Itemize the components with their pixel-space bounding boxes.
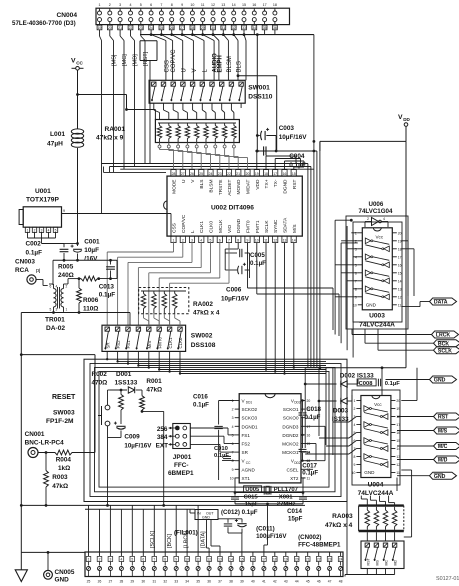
- svg-text:35: 35: [196, 580, 200, 584]
- wire BLS loop: [237, 74, 277, 151]
- svg-text:M/D: M/D: [438, 458, 448, 464]
- svg-text:5: 5: [140, 3, 142, 7]
- inductor L001: [47, 129, 84, 244]
- connector CN002 label: [298, 534, 341, 549]
- wire right bus: [308, 35, 333, 455]
- svg-text:3: 3: [56, 308, 58, 312]
- svg-text:9: 9: [63, 209, 65, 213]
- svg-text:C016: C016: [193, 394, 208, 401]
- svg-text:C003: C003: [279, 125, 295, 132]
- switch SW004: [345, 541, 404, 577]
- svg-text:10: 10: [255, 238, 259, 242]
- node M/S tag: [397, 430, 434, 432]
- capacitor C014 15pF: [235, 478, 307, 552]
- svg-text:FP1F-2M: FP1F-2M: [46, 418, 74, 425]
- svg-text:5: 5: [355, 263, 357, 267]
- svg-text:C010: C010: [214, 446, 228, 452]
- wire SW001 to RA001: [154, 103, 241, 119]
- svg-text:21: 21: [236, 172, 240, 176]
- svg-text:22: 22: [317, 558, 321, 562]
- svg-text:384: 384: [157, 434, 168, 441]
- svg-text:25: 25: [160, 26, 164, 30]
- svg-text:1: 1: [355, 231, 357, 235]
- svg-text:[MD]: [MD]: [133, 54, 139, 66]
- resistor R004 1k: [55, 364, 95, 472]
- svg-text:240Ω: 240Ω: [58, 272, 74, 279]
- svg-text:C014: C014: [287, 508, 302, 515]
- svg-text:CN004: CN004: [56, 12, 77, 19]
- svg-text:11: 11: [307, 476, 311, 480]
- svg-text:47µH: 47µH: [47, 141, 63, 148]
- wire DGND3 loop: [306, 426, 326, 460]
- svg-text:CSS: CSS: [165, 60, 171, 72]
- svg-text:R005: R005: [58, 264, 74, 271]
- svg-text:15pF: 15pF: [288, 516, 303, 523]
- svg-text:6: 6: [150, 3, 152, 7]
- svg-text:SW001: SW001: [248, 85, 270, 92]
- svg-text:12: 12: [273, 238, 277, 242]
- svg-text:Vcc: Vcc: [375, 234, 383, 239]
- svg-text:32: 32: [163, 580, 167, 584]
- svg-text:[SCLK]: [SCLK]: [150, 530, 156, 548]
- svg-text:18: 18: [398, 247, 402, 251]
- wire U002 VDD pins: [255, 150, 304, 170]
- svg-text:27MHz: 27MHz: [277, 502, 296, 508]
- diode D003 IS133: [318, 395, 352, 423]
- svg-text:M/S: M/S: [147, 341, 152, 349]
- svg-text:CLK1: CLK1: [168, 337, 173, 349]
- svg-text:DD2: DD2: [294, 461, 301, 465]
- svg-text:RST: RST: [438, 415, 449, 421]
- svg-text:47: 47: [328, 580, 332, 584]
- wire SCLK col: [265, 243, 267, 371]
- switch SW002 DSS108: [102, 325, 216, 351]
- svg-text:VIO: VIO: [227, 224, 233, 233]
- svg-text:C015: C015: [244, 495, 259, 501]
- svg-text:3: 3: [41, 229, 43, 233]
- svg-text:8: 8: [232, 459, 234, 463]
- svg-text:COP/VC: COP/VC: [171, 49, 177, 73]
- capacitor C006 10uF/16V: [221, 287, 250, 303]
- svg-text:2: 2: [109, 3, 111, 7]
- svg-text:SR: SR: [242, 450, 249, 455]
- svg-text:RA001: RA001: [104, 126, 125, 133]
- svg-text:14: 14: [229, 558, 233, 562]
- diode D001 1SS133: [110, 371, 142, 393]
- svg-text:6: 6: [50, 285, 52, 289]
- resistor R003 47k: [44, 453, 68, 506]
- IC U005 PLL1707: [230, 394, 311, 494]
- svg-text:V: V: [192, 68, 198, 72]
- svg-text:ACDET: ACDET: [227, 179, 233, 195]
- wire bottom rails: [20, 504, 305, 554]
- svg-text:RST: RST: [366, 558, 370, 566]
- svg-text:5: 5: [131, 558, 133, 562]
- svg-text:2: 2: [367, 217, 369, 221]
- wire bottom bundle: [89, 505, 242, 552]
- svg-text:7: 7: [228, 238, 230, 242]
- svg-text:22: 22: [129, 26, 133, 30]
- svg-text:5: 5: [55, 229, 57, 233]
- resistor R005 240: [58, 264, 117, 282]
- svg-text:15: 15: [292, 172, 296, 176]
- capacitor C002 0.1uF: [26, 241, 69, 261]
- svg-text:MD: MD: [394, 560, 398, 566]
- svg-text:10µF/16V: 10µF/16V: [124, 443, 152, 450]
- svg-text:21: 21: [306, 558, 310, 562]
- power VDD: [320, 114, 411, 368]
- svg-text:15: 15: [398, 271, 402, 275]
- svg-text:U: U: [181, 68, 187, 72]
- svg-text:GND: GND: [55, 577, 70, 584]
- wire U003 frame: [346, 216, 408, 329]
- svg-text:9: 9: [181, 3, 183, 7]
- power VCC: [71, 58, 155, 130]
- svg-text:6BMEP1: 6BMEP1: [168, 470, 194, 477]
- IC U001 TOTX179P: [19, 188, 171, 246]
- svg-text:XT1: XT1: [242, 476, 251, 481]
- svg-text:pj: pj: [36, 268, 40, 274]
- svg-text:4: 4: [355, 255, 357, 259]
- wire U004 to RA003: [361, 478, 397, 506]
- svg-text:LRCK: LRCK: [436, 333, 451, 339]
- svg-text:9: 9: [175, 558, 177, 562]
- svg-text:CC: CC: [246, 461, 251, 465]
- svg-text:24: 24: [209, 172, 213, 176]
- svg-text:4: 4: [200, 238, 202, 242]
- filter FIL001: [174, 509, 218, 552]
- wire RA002 to SW002: [144, 318, 181, 325]
- svg-text:40: 40: [251, 580, 255, 584]
- svg-text:COP/VC: COP/VC: [181, 214, 187, 233]
- svg-text:TRSTE: TRSTE: [218, 180, 224, 196]
- svg-text:RST: RST: [292, 179, 298, 189]
- svg-text:SR: SR: [105, 342, 110, 348]
- svg-text:TR001: TR001: [45, 317, 65, 324]
- svg-text:C017: C017: [302, 463, 317, 470]
- svg-text:17: 17: [398, 255, 402, 259]
- svg-text:5: 5: [210, 238, 212, 242]
- svg-text:SCLK: SCLK: [438, 348, 452, 354]
- svg-text:RA003: RA003: [332, 513, 353, 520]
- svg-text:33: 33: [174, 580, 178, 584]
- svg-text:47kΩ x 9: 47kΩ x 9: [96, 135, 124, 142]
- svg-text:BLS: BLS: [237, 61, 243, 72]
- svg-text:MC: MC: [385, 560, 389, 566]
- svg-text:20: 20: [398, 231, 402, 235]
- svg-text:19: 19: [284, 558, 288, 562]
- wire route box: [102, 41, 314, 214]
- svg-text:1: 1: [354, 399, 356, 403]
- svg-text:13: 13: [218, 558, 222, 562]
- svg-text:28: 28: [172, 172, 176, 176]
- svg-text:1: 1: [173, 238, 175, 242]
- wire U005 right: [306, 444, 317, 470]
- capacitor C008 0.1uF: [357, 379, 400, 387]
- capacitor C005 0.1uF: [225, 243, 266, 278]
- svg-text:48: 48: [339, 580, 343, 584]
- svg-text:0.1µF: 0.1µF: [302, 470, 318, 477]
- svg-text:11: 11: [196, 558, 200, 562]
- svg-text:R001: R001: [146, 378, 162, 385]
- svg-text:8: 8: [237, 238, 239, 242]
- svg-text:14: 14: [232, 3, 236, 7]
- svg-text:FFC-: FFC-: [174, 462, 189, 469]
- svg-text:C008: C008: [359, 381, 374, 387]
- svg-text:SCKO1: SCKO1: [283, 407, 299, 412]
- node RST tag: [397, 416, 434, 418]
- svg-text:MS: MS: [375, 560, 379, 566]
- svg-text:9: 9: [247, 238, 249, 242]
- wire M/S col: [293, 243, 295, 369]
- svg-text:9: 9: [355, 295, 357, 299]
- svg-text:13: 13: [398, 287, 402, 291]
- svg-text:DD: DD: [403, 117, 410, 122]
- svg-text:U002 DIT4096: U002 DIT4096: [211, 205, 254, 212]
- svg-text:M/C: M/C: [438, 444, 448, 450]
- svg-text:DGND: DGND: [236, 218, 242, 233]
- svg-text:16: 16: [252, 3, 256, 7]
- svg-text:7: 7: [355, 279, 357, 283]
- svg-text:17: 17: [307, 425, 311, 429]
- svg-text:C005: C005: [250, 252, 265, 259]
- svg-text:R003: R003: [52, 474, 68, 481]
- svg-text:MODE: MODE: [172, 180, 178, 194]
- svg-text:4: 4: [130, 3, 132, 7]
- wire lower frame: [84, 359, 347, 501]
- node GND tag1: [386, 379, 430, 381]
- svg-text:3: 3: [109, 558, 111, 562]
- svg-text:M/DAT: M/DAT: [246, 179, 252, 194]
- svg-text:[DATA]: [DATA]: [200, 531, 206, 548]
- svg-text:2: 2: [99, 558, 101, 562]
- svg-text:19: 19: [255, 172, 259, 176]
- svg-text:31: 31: [152, 580, 156, 584]
- svg-text:47kΩ: 47kΩ: [52, 483, 68, 490]
- svg-text:FS1: FS1: [242, 433, 251, 438]
- svg-text:/16V: /16V: [84, 256, 98, 263]
- svg-text:[MC]: [MC]: [122, 54, 128, 66]
- svg-text:(CN002): (CN002): [298, 534, 321, 541]
- svg-text:10: 10: [185, 558, 189, 562]
- svg-text:27: 27: [180, 26, 184, 30]
- svg-text:RCA: RCA: [15, 267, 29, 274]
- svg-text:R006: R006: [83, 297, 99, 304]
- resistor R001 47k: [140, 378, 164, 505]
- switch SW003 FP1F-2M: [46, 390, 121, 438]
- svg-text:8: 8: [354, 455, 356, 459]
- svg-text:0.1µF: 0.1µF: [385, 381, 400, 387]
- svg-text:5: 5: [50, 308, 52, 312]
- svg-text:SYNC: SYNC: [273, 219, 279, 233]
- svg-text:CN001: CN001: [25, 431, 45, 438]
- svg-text:16: 16: [398, 263, 402, 267]
- wire JP001 to U005: [190, 428, 234, 452]
- svg-text:[BCK]: [BCK]: [167, 533, 173, 548]
- svg-text:46: 46: [317, 580, 321, 584]
- svg-text:FMT1: FMT1: [255, 220, 261, 233]
- svg-text:30: 30: [141, 580, 145, 584]
- svg-text:EMPH: EMPH: [218, 55, 224, 72]
- svg-text:12: 12: [398, 295, 402, 299]
- svg-text:16: 16: [251, 558, 255, 562]
- svg-text:1: 1: [88, 558, 90, 562]
- svg-text:47kΩ: 47kΩ: [146, 387, 162, 394]
- svg-text:4: 4: [354, 423, 356, 427]
- svg-text:10µF/16V: 10µF/16V: [279, 134, 308, 141]
- svg-text:23: 23: [218, 172, 222, 176]
- svg-text:DSS108: DSS108: [191, 342, 216, 349]
- svg-text:18: 18: [273, 558, 277, 562]
- svg-text:19: 19: [98, 26, 102, 30]
- svg-text:AGND: AGND: [242, 467, 256, 472]
- svg-text:2: 2: [354, 407, 356, 411]
- svg-text:GND: GND: [202, 516, 210, 520]
- svg-text:13: 13: [283, 238, 287, 242]
- svg-text:36: 36: [207, 580, 211, 584]
- svg-text:11: 11: [264, 238, 268, 242]
- svg-text:47kΩ x 4: 47kΩ x 4: [325, 522, 353, 529]
- wire SYNC col: [274, 243, 276, 373]
- svg-text:100µF/16V: 100µF/16V: [256, 533, 287, 540]
- svg-text:CSEL: CSEL: [286, 467, 298, 472]
- capacitor C016 0.1uF: [193, 394, 235, 481]
- svg-text:SCKO3: SCKO3: [242, 416, 258, 421]
- svg-text:GND: GND: [434, 378, 446, 384]
- svg-text:L001: L001: [50, 131, 65, 138]
- svg-text:RA002: RA002: [193, 301, 213, 308]
- svg-text:SCKO0: SCKO0: [283, 416, 299, 421]
- capacitor C009 10uF/16V: [108, 422, 153, 506]
- capacitor C018 0.1uF: [299, 399, 322, 436]
- wire top bus: [140, 33, 314, 80]
- svg-text:34: 34: [185, 580, 189, 584]
- svg-text:13: 13: [221, 3, 225, 7]
- capacitor C004 0.1uF: [256, 146, 317, 169]
- svg-text:15: 15: [242, 3, 246, 7]
- resistor array RA003 47k x 4: [325, 506, 404, 541]
- svg-text:7: 7: [232, 451, 234, 455]
- svg-text:TX-: TX-: [273, 179, 279, 187]
- wire U004 right drop: [401, 470, 411, 537]
- svg-text:10µF: 10µF: [84, 247, 99, 254]
- svg-text:44: 44: [295, 580, 299, 584]
- node GND tag2: [397, 475, 430, 477]
- svg-text:M/S: M/S: [292, 224, 298, 233]
- diode D002 IS133: [304, 373, 374, 388]
- IC U002 DIT4096: [164, 170, 303, 243]
- svg-text:X001: X001: [279, 495, 293, 501]
- svg-text:38: 38: [229, 580, 233, 584]
- svg-text:MONO: MONO: [236, 179, 242, 194]
- svg-text:11: 11: [201, 3, 205, 7]
- svg-text:M/S: M/S: [438, 429, 448, 435]
- svg-text:SW002: SW002: [191, 333, 213, 340]
- svg-text:FFC-48BMEP1: FFC-48BMEP1: [298, 542, 341, 549]
- svg-text:C002: C002: [26, 241, 42, 248]
- svg-text:12: 12: [207, 558, 211, 562]
- svg-text:30: 30: [211, 26, 215, 30]
- svg-text:TOTX179P: TOTX179P: [26, 197, 59, 204]
- svg-text:10µF/16V: 10µF/16V: [221, 296, 250, 303]
- capacitor C010 0.1uF: [214, 446, 235, 461]
- svg-text:BNC-LR-PC4: BNC-LR-PC4: [25, 440, 64, 447]
- svg-text:23: 23: [139, 26, 143, 30]
- svg-text:DGND: DGND: [283, 179, 289, 194]
- svg-text:BLSM: BLSM: [227, 56, 233, 72]
- svg-text:18: 18: [307, 416, 311, 420]
- svg-text:37: 37: [218, 580, 222, 584]
- buffer U003 74LVC244A: [353, 228, 402, 329]
- svg-text:0.1µF: 0.1µF: [26, 250, 43, 257]
- svg-text:14: 14: [398, 279, 402, 283]
- svg-text:(C012) 0.1µF: (C012) 0.1µF: [221, 509, 258, 516]
- svg-text:23: 23: [328, 558, 332, 562]
- svg-text:SCKO2: SCKO2: [242, 407, 258, 412]
- svg-text:1: 1: [27, 229, 29, 233]
- svg-text:28: 28: [191, 26, 195, 30]
- svg-text:15pF: 15pF: [245, 502, 259, 508]
- svg-text:FS2: FS2: [242, 442, 251, 447]
- svg-text:BLSM: BLSM: [209, 180, 215, 193]
- connector CN005 GND: [44, 552, 75, 583]
- svg-text:FS1: FS1: [126, 340, 131, 349]
- svg-text:SCLK: SCLK: [264, 220, 270, 233]
- svg-text:GND: GND: [434, 474, 446, 480]
- resistor array RA001 47k x 9: [96, 120, 239, 149]
- svg-text:24: 24: [149, 26, 153, 30]
- svg-text:18: 18: [264, 172, 268, 176]
- wire U004 frame: [305, 366, 406, 485]
- switch SW001 DSS110: [149, 80, 273, 103]
- wire U004 VCC: [401, 368, 417, 401]
- svg-text:110Ω: 110Ω: [83, 306, 98, 313]
- svg-text:2: 2: [34, 229, 36, 233]
- jumper JP001 FFC-6BMEP1: [156, 424, 194, 478]
- svg-text:27: 27: [109, 580, 113, 584]
- svg-text:25: 25: [199, 172, 203, 176]
- svg-text:U003: U003: [369, 313, 385, 320]
- capacitor C011 100uF/16V: [228, 519, 287, 540]
- svg-text:4: 4: [232, 425, 234, 429]
- inverter U006 74LVC1G04: [359, 201, 393, 227]
- svg-text:11: 11: [396, 471, 400, 475]
- svg-text:0.1µF: 0.1µF: [289, 162, 306, 169]
- svg-text:20: 20: [307, 399, 311, 403]
- ground: [15, 552, 27, 581]
- svg-text:5: 5: [232, 433, 234, 437]
- svg-text:4: 4: [48, 229, 50, 233]
- svg-text:6: 6: [232, 442, 234, 446]
- svg-text:8: 8: [164, 558, 166, 562]
- svg-text:17: 17: [273, 172, 277, 176]
- svg-text:MCLK: MCLK: [218, 219, 224, 233]
- svg-text:9: 9: [232, 468, 234, 472]
- transformer TR001 DA-02: [21, 279, 130, 332]
- capacitor C012: [218, 509, 258, 533]
- svg-text:16: 16: [307, 433, 311, 437]
- svg-text:L: L: [190, 230, 196, 233]
- svg-text:26: 26: [170, 26, 174, 30]
- svg-text:2: 2: [355, 239, 357, 243]
- svg-text:D002: D002: [340, 373, 356, 380]
- svg-text:41: 41: [262, 580, 266, 584]
- svg-text:MCKO2: MCKO2: [282, 442, 299, 447]
- svg-text:0.1µF: 0.1µF: [193, 402, 209, 409]
- svg-text:14: 14: [292, 238, 296, 242]
- svg-text:4: 4: [56, 285, 58, 289]
- svg-text:2: 2: [182, 238, 184, 242]
